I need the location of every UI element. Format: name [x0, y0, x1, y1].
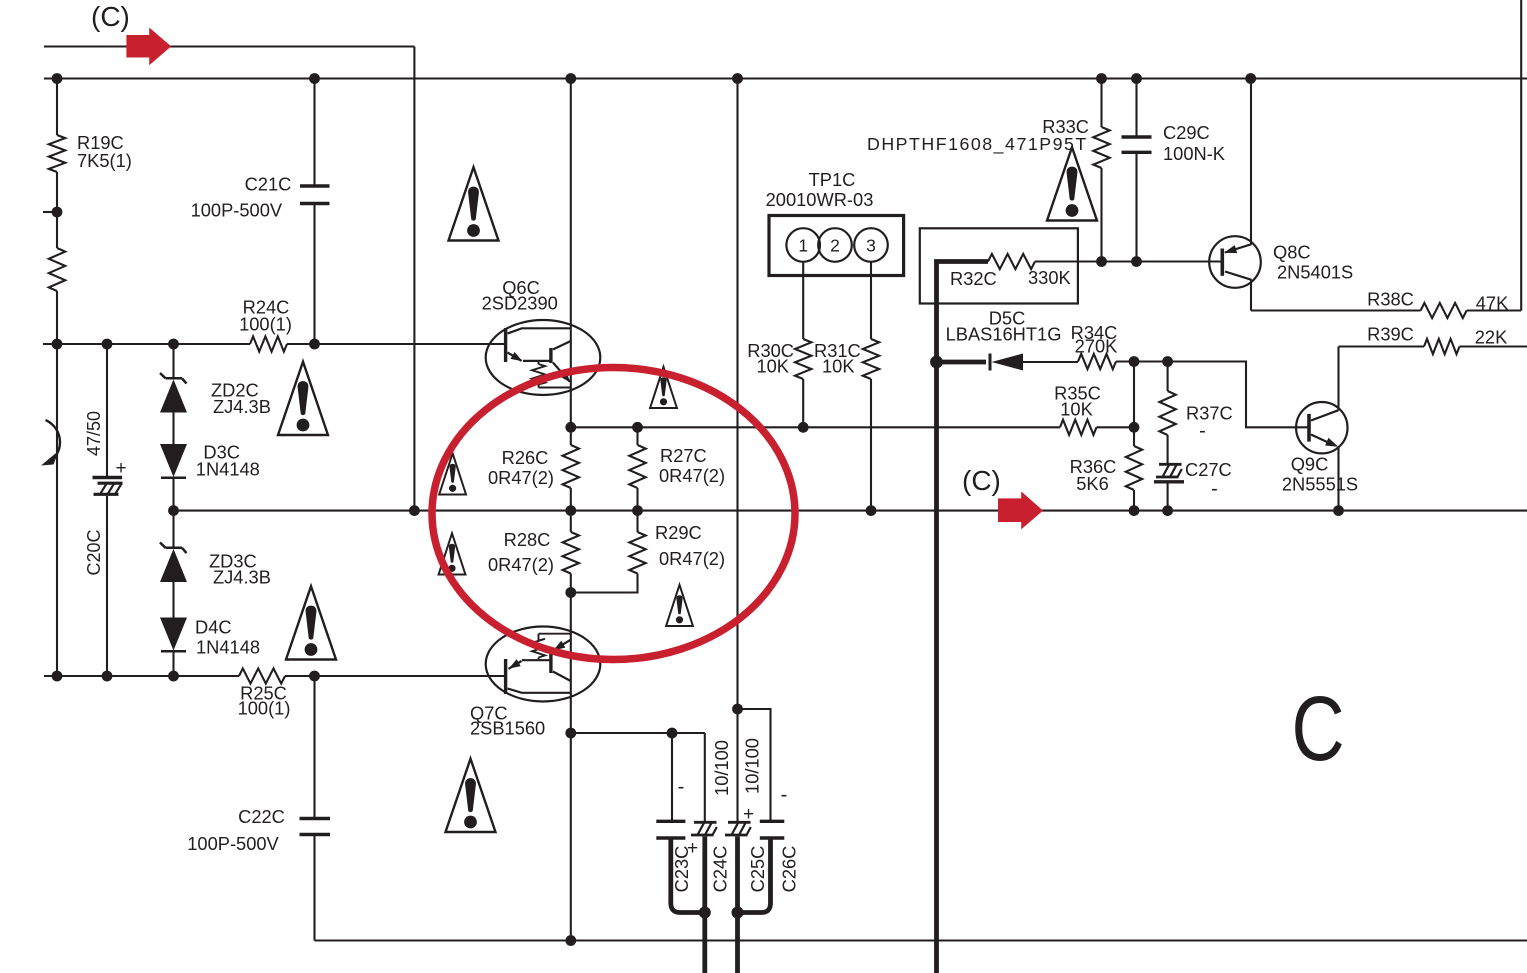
wire rail y427 right	[1097, 426, 1135, 428]
resistor R33C	[1093, 127, 1109, 168]
svg-text:-: -	[781, 784, 788, 806]
wire R39C line left	[1339, 345, 1425, 347]
junction long rail R36C	[1129, 505, 1140, 516]
svg-text:0R47(2): 0R47(2)	[659, 548, 725, 569]
svg-text:DHPTHF1608_471P95T: DHPTHF1608_471P95T	[867, 134, 1088, 155]
current loop arrow	[46, 420, 60, 464]
signal arrow (C) top	[126, 28, 171, 66]
svg-text:R28C: R28C	[504, 529, 551, 550]
wire Q8C collector drop	[1250, 280, 1252, 311]
svg-text:1: 1	[798, 236, 808, 256]
wire bottom rail	[315, 939, 1527, 941]
svg-text:R27C: R27C	[660, 445, 707, 466]
wire vertical from (C) feed	[413, 47, 415, 511]
wire R37C top	[1167, 362, 1169, 392]
wire R27C bottom	[636, 488, 638, 511]
wire main vertical between R26C R28C	[570, 488, 572, 532]
junction main vertical caps wire	[565, 728, 576, 739]
wire C26C top lead	[738, 709, 771, 821]
junction rail344 C20C	[102, 339, 113, 350]
wire C21C top lead	[313, 79, 315, 186]
wire R29C bottom bend	[571, 574, 638, 593]
wire C20C bottom lead	[106, 496, 108, 676]
box R32C	[920, 228, 1078, 303]
transistor Q6C	[486, 320, 601, 395]
svg-text:C21C: C21C	[245, 174, 292, 195]
junction long rail top feed	[409, 505, 420, 516]
resistor R32C	[988, 254, 1035, 269]
svg-text:LBAS16HT1G: LBAS16HT1G	[946, 324, 1062, 345]
resistor R26C	[563, 445, 579, 488]
svg-text:7K5(1): 7K5(1)	[77, 150, 132, 171]
svg-text:R33C: R33C	[1042, 116, 1089, 137]
svg-text:10/100: 10/100	[742, 738, 763, 794]
junction long rail Q9C	[1333, 505, 1344, 516]
wire rail y676 to Q7C base	[285, 675, 506, 677]
svg-text:100(1): 100(1)	[238, 698, 291, 719]
svg-text:1N4148: 1N4148	[196, 459, 260, 480]
resistor R28C	[563, 532, 579, 574]
junction top bus C29C	[1131, 73, 1142, 84]
warning symbol near ZD2C	[278, 362, 328, 435]
connector TP1C pin 1	[786, 228, 820, 262]
wire R38C line right	[1467, 309, 1522, 311]
svg-text:47/50: 47/50	[84, 411, 104, 456]
zener ZD3C	[160, 543, 187, 583]
svg-text:C29C: C29C	[1163, 122, 1210, 143]
warning symbol small near R29C	[666, 585, 693, 626]
junction rail676 diode chain	[168, 671, 179, 682]
warning symbol near R33C	[1047, 147, 1097, 220]
capacitor C27C plate	[1154, 480, 1184, 483]
svg-text:+: +	[743, 804, 754, 825]
wire C25C vertical from top bus	[736, 79, 738, 823]
warning symbol small near R26C	[439, 453, 466, 494]
highlight ellipse	[432, 368, 795, 660]
resistor R24C	[250, 336, 287, 351]
svg-text:+: +	[115, 458, 126, 479]
wire Q8C emitter riser	[1250, 79, 1252, 245]
capacitor C20C plate	[93, 476, 123, 479]
wire R36C bottom	[1133, 490, 1135, 511]
junction long rail R26C/R28C	[565, 505, 576, 516]
wire R39C line right	[1460, 345, 1527, 347]
warning symbol near ZD3C	[286, 586, 336, 659]
wire C29C top	[1135, 79, 1137, 137]
wire main vertical lower	[570, 574, 572, 941]
junction R34C R36C	[1129, 356, 1140, 367]
junction top bus / C21C	[309, 73, 320, 84]
junction long rail R31C	[866, 505, 877, 516]
junction rail676 C20C	[102, 671, 113, 682]
svg-text:(C): (C)	[91, 1, 130, 32]
svg-text:2N5551S: 2N5551S	[1282, 474, 1358, 495]
wire R37C to C27C	[1167, 435, 1169, 464]
resistor R35C	[1060, 420, 1097, 435]
svg-text:100P-500V: 100P-500V	[191, 200, 283, 221]
resistor R30C	[795, 339, 811, 379]
wire C26C thick bottom lead	[738, 838, 771, 913]
transistor Q7C	[486, 627, 601, 702]
wire D3C to mid rail	[172, 478, 174, 511]
junction long rail C27C	[1162, 505, 1173, 516]
junction rail676 left column	[52, 671, 63, 682]
wire ZD3C-D4C	[172, 582, 174, 618]
junction rail344 C21C	[309, 339, 320, 350]
resistor R36C	[1126, 446, 1142, 490]
diode D4C	[160, 618, 187, 652]
svg-text:C27C: C27C	[1185, 459, 1232, 480]
wire C23C top lead	[671, 733, 673, 821]
diode D5C	[990, 354, 1023, 371]
svg-text:3: 3	[866, 236, 876, 256]
wire R31C bottom	[870, 379, 872, 511]
svg-text:C23C: C23C	[671, 846, 692, 893]
svg-text:C24C: C24C	[710, 846, 731, 893]
connector TP1C pin 3	[854, 228, 888, 262]
wire R33C top	[1100, 79, 1102, 128]
svg-text:10K: 10K	[1060, 399, 1093, 420]
svg-text:ZJ4.3B: ZJ4.3B	[213, 567, 271, 588]
wire C22C bottom lead + bottom rail corner	[313, 836, 315, 941]
resistor R19C	[49, 135, 65, 172]
junction top bus R33C	[1096, 73, 1107, 84]
junction rail676 C22C	[309, 671, 320, 682]
capacitor C25C hatched plate	[725, 822, 751, 835]
svg-text:2: 2	[830, 236, 840, 256]
svg-text:10K: 10K	[822, 356, 855, 377]
junction top bus / main vertical	[565, 73, 576, 84]
wire TP1C pin3 to R31C	[870, 262, 872, 339]
wire stub left	[43, 211, 57, 213]
junction C25C/C26C top	[732, 704, 743, 715]
capacitor C23C plates	[656, 821, 685, 838]
junction left column mid	[52, 207, 63, 218]
wire left column lower	[56, 291, 58, 676]
svg-text:1N4148: 1N4148	[196, 636, 260, 657]
wire D4C bottom	[172, 652, 174, 677]
junction rail427 R36C	[1129, 422, 1140, 433]
svg-text:R26C: R26C	[502, 447, 549, 468]
svg-text:10/100: 10/100	[711, 740, 732, 796]
warning symbol near Q7C	[446, 759, 496, 832]
wire ZD2C-D3C	[172, 413, 174, 445]
capacitor C24C hatched plate	[691, 822, 717, 835]
capacitor C27C hatched plate	[1156, 464, 1182, 477]
wire C24C top lead	[704, 733, 706, 822]
wire thick vertical bus	[937, 262, 989, 973]
signal arrow (C) mid	[998, 491, 1043, 529]
wire R34C right	[1116, 360, 1168, 362]
warning symbol near Q6C	[449, 167, 499, 240]
svg-text:2SD2390: 2SD2390	[482, 292, 558, 313]
resistor R34C	[1078, 354, 1116, 369]
wire C29C bottom	[1135, 154, 1137, 262]
wire R36C top	[1133, 362, 1135, 447]
junction top bus Q8C	[1245, 73, 1256, 84]
capacitor C20C hatched plate	[94, 483, 123, 494]
svg-text:D4C: D4C	[195, 617, 232, 638]
junction rail344 left column	[52, 339, 63, 350]
svg-text:0R47(2): 0R47(2)	[659, 465, 725, 486]
capacitor C21C plates	[300, 186, 330, 204]
wire rail y344 left	[43, 343, 250, 345]
junction long rail diode chain	[168, 505, 179, 516]
wire R29C top	[636, 511, 638, 532]
junction C23C/C24C bottom	[699, 907, 711, 919]
wire Q7C collector to caps	[571, 732, 705, 734]
wire C27C bottom	[1167, 484, 1169, 511]
svg-text:Q9C: Q9C	[1291, 454, 1329, 475]
transistor Q9C	[1296, 402, 1347, 453]
svg-text:-: -	[678, 776, 685, 798]
svg-text:R32C: R32C	[950, 268, 997, 289]
svg-text:Q8C: Q8C	[1273, 242, 1311, 263]
resistor R29C	[629, 532, 645, 574]
svg-text:C20C: C20C	[84, 529, 104, 575]
resistor R31C	[863, 339, 879, 379]
resistor R38C	[1421, 303, 1467, 318]
svg-text:R37C: R37C	[1186, 403, 1233, 424]
junction mid rail R26C	[565, 422, 576, 433]
wire Q9C collector riser	[1337, 347, 1339, 411]
wire C21C bottom lead	[313, 205, 315, 344]
svg-text:ZJ4.3B: ZJ4.3B	[213, 396, 271, 417]
wire right vertical	[1520, 0, 1522, 311]
wire main vertical upper	[570, 79, 572, 446]
wire C24C thick bottom lead	[702, 837, 707, 973]
junction top bus / left column	[52, 73, 63, 84]
wire rail y676 left	[44, 675, 239, 677]
connector TP1C box	[769, 216, 904, 276]
junction R34C R37C	[1162, 356, 1173, 367]
wire C20C top lead	[106, 344, 108, 477]
resistor R27C	[629, 445, 645, 488]
wire top (C) feed	[44, 45, 414, 47]
wire mid rail to ZD3C	[172, 511, 174, 548]
svg-text:100(1): 100(1)	[239, 314, 292, 335]
junction R32C line R33C	[1096, 256, 1107, 267]
junction C25C/C26C bottom	[732, 907, 744, 919]
wire Q9C emitter drop	[1337, 447, 1339, 511]
svg-text:0R47(2): 0R47(2)	[488, 467, 554, 488]
svg-text:C25C: C25C	[747, 846, 768, 893]
wire to Q9C base	[1168, 362, 1309, 428]
zener ZD2C	[160, 373, 187, 413]
wire R32C to Q8C base	[1035, 260, 1222, 262]
junction C23C top	[667, 728, 678, 739]
svg-text:100P-500V: 100P-500V	[187, 833, 279, 854]
svg-text:R39C: R39C	[1367, 324, 1414, 345]
resistor R39C	[1424, 339, 1460, 354]
warning symbol small near R28C	[439, 533, 466, 574]
svg-text:-: -	[1199, 420, 1206, 442]
svg-text:R29C: R29C	[655, 522, 702, 543]
svg-text:(C): (C)	[962, 465, 1001, 496]
warning symbol small near R27C	[650, 367, 677, 408]
junction rail344 diode chain	[168, 339, 179, 350]
svg-text:C26C: C26C	[779, 846, 800, 893]
wire D5C to R34C	[1023, 361, 1078, 363]
junction R28C/R29C bottom	[565, 587, 576, 598]
wire C25C thick bottom lead	[735, 837, 740, 973]
junction rail427 R30C	[798, 422, 809, 433]
svg-text:5K6: 5K6	[1076, 473, 1109, 494]
connector TP1C pin 2	[818, 228, 852, 262]
svg-text:-: -	[1211, 478, 1218, 500]
junction thick bus D5C	[930, 356, 943, 369]
svg-text:R38C: R38C	[1367, 289, 1414, 310]
junction bottom rail / main vertical	[565, 935, 576, 946]
wire R38C line left	[1251, 309, 1421, 311]
wire C23C thick bottom lead	[671, 838, 705, 913]
junction top bus / C25C	[732, 73, 743, 84]
wire R19C mid	[56, 172, 58, 248]
junction R32C line C29C	[1131, 256, 1142, 267]
diode D3C	[160, 444, 187, 478]
svg-text:2SB1560: 2SB1560	[470, 718, 545, 739]
wire TP1C pin1 to R30C	[802, 262, 804, 339]
svg-text:TP1C: TP1C	[809, 169, 856, 190]
wire rail y427	[571, 426, 1060, 428]
wire R33C bottom	[1100, 168, 1102, 262]
svg-text:100N-K: 100N-K	[1163, 143, 1225, 164]
wire R30C bottom	[802, 379, 804, 427]
transistor Q8C	[1209, 236, 1261, 288]
resistor R25C	[239, 668, 285, 683]
svg-text:0R47(2): 0R47(2)	[488, 554, 554, 575]
wire R19C top	[56, 79, 58, 136]
junction mid rail R27C	[632, 422, 643, 433]
wire rail y344 to Q6C base	[287, 343, 506, 345]
wire diode chain top	[172, 344, 174, 378]
resistor R37C	[1159, 391, 1175, 435]
svg-text:2N5401S: 2N5401S	[1277, 262, 1353, 283]
svg-text:20010WR-03: 20010WR-03	[766, 189, 874, 210]
wire top bus	[44, 77, 1527, 79]
junction long rail R27C/R29C	[632, 505, 643, 516]
wire long mid rail	[174, 510, 1527, 512]
wire D5C thick stub	[937, 360, 987, 365]
capacitor C22C plates	[300, 819, 331, 835]
svg-text:C: C	[1292, 677, 1345, 780]
svg-text:10K: 10K	[756, 356, 789, 377]
capacitor C29C plates	[1122, 137, 1152, 152]
capacitor C26C plates	[760, 821, 785, 838]
resistor R19C lower section	[49, 248, 65, 291]
wire C22C top lead	[313, 676, 315, 818]
svg-text:330K: 330K	[1028, 267, 1071, 288]
svg-text:22K: 22K	[1475, 327, 1508, 348]
svg-text:270K: 270K	[1075, 336, 1118, 357]
svg-text:C22C: C22C	[238, 806, 285, 827]
wire R27C top	[636, 427, 638, 445]
